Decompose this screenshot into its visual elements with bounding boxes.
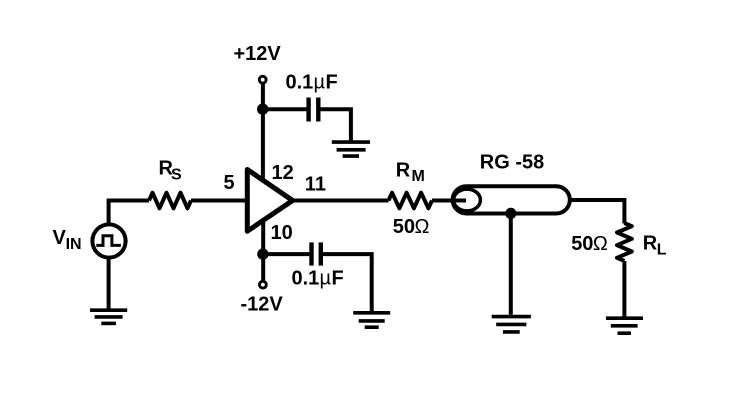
svg-text:12: 12 bbox=[272, 162, 294, 184]
svg-text:10: 10 bbox=[271, 222, 293, 244]
wire RM to coax bbox=[432, 199, 466, 203]
coax front end circle bbox=[454, 189, 481, 211]
label 0.1uF (top) bbox=[286, 72, 338, 94]
svg-text:V: V bbox=[53, 227, 67, 249]
label 50 ohm (RM) bbox=[393, 216, 430, 238]
coax cable RG-58 (body) bbox=[453, 186, 570, 213]
wire RL to ground bbox=[622, 261, 626, 317]
ground (C2) bbox=[353, 313, 390, 327]
wire coax out to RL bbox=[571, 200, 624, 224]
svg-text:S: S bbox=[171, 167, 182, 184]
svg-text:µ: µ bbox=[314, 72, 326, 94]
svg-text:µ: µ bbox=[320, 268, 332, 290]
label RM bbox=[396, 160, 425, 186]
junction dot (+12V rail) bbox=[257, 103, 268, 114]
wire C1 to ground bbox=[321, 109, 351, 140]
label 0.1uF (bottom) bbox=[292, 268, 344, 290]
wire VIN bottom to ground bbox=[107, 257, 111, 310]
svg-text:50: 50 bbox=[571, 233, 593, 255]
wire C2 to ground bbox=[323, 254, 372, 311]
wire pin 11 output to RM bbox=[291, 199, 389, 203]
svg-text:Ω: Ω bbox=[593, 233, 608, 255]
wire pin 10 to -12V terminal bbox=[261, 221, 265, 281]
capacitor C1 0.1uF plates bbox=[309, 98, 319, 122]
svg-text:F: F bbox=[332, 268, 344, 290]
-12V terminal (open circle) bbox=[260, 281, 267, 288]
wire junction to capacitor C1 bbox=[263, 107, 307, 111]
svg-text:5: 5 bbox=[224, 172, 235, 194]
junction dot (-12V rail) bbox=[257, 248, 268, 259]
svg-text:0.1: 0.1 bbox=[292, 268, 320, 290]
svg-text:M: M bbox=[412, 168, 425, 185]
ground (C1) bbox=[332, 142, 370, 156]
resistor RM bbox=[389, 193, 433, 209]
op-amp buffer U1 (triangle) bbox=[247, 170, 292, 232]
label 50 ohm (RL) bbox=[571, 233, 608, 255]
ground (RL) bbox=[606, 318, 643, 333]
svg-text:F: F bbox=[326, 72, 338, 94]
svg-text:+12V: +12V bbox=[234, 43, 282, 65]
ground (VIN) bbox=[90, 310, 127, 323]
wire junction to capacitor C2 bbox=[263, 252, 310, 256]
wire RS to buffer input pin 5 bbox=[191, 199, 246, 203]
svg-text:IN: IN bbox=[66, 236, 82, 253]
svg-text:RG -58: RG -58 bbox=[480, 151, 544, 173]
wire stub into coax center bbox=[448, 199, 466, 203]
ground (coax) bbox=[492, 317, 531, 332]
svg-text:-12V: -12V bbox=[241, 294, 284, 316]
resistor RS bbox=[149, 193, 191, 209]
wire VIN top to RS bbox=[109, 201, 149, 225]
+12V terminal (open circle) bbox=[259, 76, 266, 83]
capacitor C2 0.1uF plates bbox=[312, 242, 321, 265]
wire +12V to pin 12 bbox=[261, 84, 265, 181]
source VIN (pulse source circle) bbox=[92, 224, 125, 257]
wire coax shield to ground bbox=[509, 213, 513, 314]
junction dot (coax shield) bbox=[505, 208, 516, 219]
label RS bbox=[159, 158, 183, 184]
svg-text:0.1: 0.1 bbox=[286, 72, 314, 94]
label VIN bbox=[53, 227, 82, 253]
svg-text:11: 11 bbox=[305, 174, 326, 196]
label RL bbox=[643, 233, 667, 259]
svg-text:50: 50 bbox=[393, 216, 415, 238]
resistor RL bbox=[617, 223, 632, 261]
svg-text:Ω: Ω bbox=[415, 216, 430, 238]
svg-text:R: R bbox=[643, 233, 658, 255]
svg-text:L: L bbox=[657, 242, 667, 259]
svg-text:R: R bbox=[396, 160, 411, 182]
